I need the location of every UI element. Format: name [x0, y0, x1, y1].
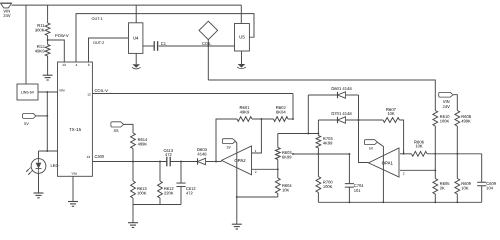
wire feedback node to OPA1 input	[359, 95, 369, 163]
wire C1 to U5 / coil tap	[159, 45, 235, 47]
node POW-V	[48, 40, 65, 62]
svg-text:C613: C613	[164, 148, 174, 153]
resistor R612 220K	[159, 162, 161, 182]
IC TX-15 main controller	[58, 62, 93, 176]
svg-text:1: 1	[255, 149, 257, 153]
wire U4 out to C1	[143, 45, 154, 47]
capacitor C609 104	[481, 154, 483, 183]
wire OPA2 pin 2 to R603/R604 node	[252, 168, 278, 170]
svg-text:R12: R12	[37, 45, 45, 50]
svg-text:OUT-1: OUT-1	[92, 17, 103, 21]
wire OPA1 pin 2 line	[400, 169, 435, 171]
svg-text:2: 2	[403, 172, 405, 176]
capacitor C612 472	[180, 162, 182, 184]
svg-text:2: 2	[255, 171, 257, 175]
wire OPA2 feedback up to R601	[216, 119, 237, 162]
wire LED cathode to ground	[38, 173, 40, 192]
wire U5 to ground	[241, 51, 243, 64]
resistor R614 499K	[131, 133, 136, 149]
ground (U4)	[132, 64, 140, 68]
capacitor C1	[153, 41, 155, 51]
ground (LED)	[34, 192, 44, 194]
wire R605 to bottom rail	[434, 194, 436, 202]
svg-text:R703: R703	[323, 136, 333, 141]
wire net C300 (IC pin 13 to C613)	[95, 155, 105, 160]
svg-text:R603: R603	[282, 150, 292, 155]
svg-text:472: 472	[186, 191, 193, 196]
wire R607 to OPA1 output node	[400, 120, 404, 154]
wire rail to U4	[135, 5, 137, 23]
wire VIN flag to R608	[453, 95, 457, 111]
wire LED line to IC	[39, 150, 58, 152]
svg-text:472: 472	[165, 153, 172, 158]
svg-text:5V: 5V	[227, 146, 231, 150]
wire rail to LIN5-5V regulator input	[25, 5, 27, 84]
wire 5V flag through OPA1 to rail	[377, 142, 383, 202]
wire SS flag to R614	[124, 124, 133, 133]
svg-text:C612: C612	[186, 186, 196, 191]
wire bottom rail (R613 group)	[133, 204, 181, 206]
resistor R601 49K9	[237, 117, 252, 122]
svg-text:OUT-2: OUT-2	[93, 41, 104, 45]
svg-text:49K9: 49K9	[35, 49, 45, 54]
resistor R11 300K	[47, 5, 49, 23]
svg-text:R613: R613	[137, 186, 147, 191]
wire C704 to bottom rail	[348, 187, 350, 202]
svg-text:24V: 24V	[443, 104, 451, 109]
LED D1	[31, 159, 46, 174]
wire U4 to ground	[135, 53, 137, 64]
svg-text:C609: C609	[486, 181, 496, 186]
svg-text:R602: R602	[276, 105, 286, 110]
svg-text:499K: 499K	[461, 119, 470, 124]
diode D701 4148	[318, 119, 337, 121]
wire coil sense line to R610	[208, 80, 435, 111]
svg-text:LIN5-5V: LIN5-5V	[21, 90, 35, 94]
svg-text:100K: 100K	[323, 184, 332, 189]
resistor R12 49K9	[47, 36, 49, 45]
wire to LED anode	[38, 151, 40, 158]
wire 5V flag through OPA2 to ground	[235, 141, 236, 224]
svg-text:OPA2: OPA2	[234, 158, 245, 163]
svg-text:100K: 100K	[137, 191, 146, 196]
ground (Vss)	[68, 201, 78, 203]
svg-text:5V: 5V	[369, 147, 373, 151]
ground (OPA2)	[232, 223, 242, 225]
wire R603 to R604	[277, 160, 279, 179]
svg-text:D603: D603	[197, 147, 207, 152]
svg-text:2K: 2K	[440, 186, 445, 191]
svg-text:C300: C300	[95, 155, 105, 160]
wire C613 to D603	[170, 161, 197, 163]
wire IC Vss to ground	[72, 176, 74, 201]
resistor R613 100K	[132, 162, 134, 182]
wire R613 to bottom rail	[132, 198, 134, 205]
svg-text:5V: 5V	[24, 122, 29, 126]
svg-text:4148: 4148	[197, 152, 206, 157]
svg-text:R601: R601	[240, 105, 250, 110]
svg-text:R605: R605	[440, 181, 450, 186]
diode D603 4148	[197, 158, 199, 164]
svg-text:300K: 300K	[35, 28, 45, 33]
resistor R605 2K	[433, 179, 438, 195]
resistor R608 499K	[455, 111, 460, 127]
svg-text:POW-V: POW-V	[55, 34, 69, 39]
regulator LIN5-5V	[17, 84, 38, 100]
wire R602 to COIL-V drop	[288, 118, 293, 120]
resistor R602 6K04	[274, 117, 289, 122]
svg-text:D701 4148: D701 4148	[331, 111, 351, 116]
power flag VIN 24V (top-left)	[1, 3, 12, 8]
wire C612 to bottom rail	[180, 186, 182, 204]
wire ground rail (OPA2)	[237, 196, 278, 198]
wire R604 to ground rail	[277, 194, 279, 198]
resistor R603 6K99	[277, 134, 279, 148]
wire coil bottom vertical	[207, 40, 209, 80]
svg-text:R612: R612	[164, 186, 174, 191]
wire R603 top to R703 node	[278, 133, 319, 135]
wire D601 loop left drop	[307, 95, 309, 134]
svg-text:220K: 220K	[164, 191, 173, 196]
net flag VIN 24V (right)	[439, 92, 453, 97]
svg-text:R609: R609	[461, 181, 471, 186]
wire R614 to C300 line	[132, 149, 134, 162]
svg-text:6: 6	[88, 63, 90, 67]
ground (R12)	[43, 74, 53, 76]
IC U5 driver	[235, 24, 250, 52]
wire R703 to R700	[317, 148, 319, 177]
wire OPA2 output to feedback node	[252, 119, 262, 153]
net flag 5V	[23, 113, 36, 118]
wire VIN 24V top rail	[12, 4, 242, 6]
svg-text:TX-15: TX-15	[69, 128, 81, 133]
IC U4 driver	[129, 23, 143, 54]
wire R608 to R609	[456, 126, 458, 179]
wire R700 to bottom rail	[317, 193, 319, 203]
wire rail to U5	[240, 5, 242, 23]
svg-text:C1: C1	[161, 41, 166, 46]
wire 5V flag tap	[36, 115, 47, 117]
wire D601 to OPA1 node	[346, 94, 359, 96]
wire net OUT-1	[76, 14, 254, 62]
wire net OUT-2	[89, 38, 129, 62]
wire R601 to R602	[252, 118, 274, 120]
svg-text:R610: R610	[440, 114, 450, 119]
svg-text:6K04: 6K04	[276, 110, 286, 115]
svg-text:101: 101	[354, 188, 361, 193]
svg-text:10K: 10K	[415, 144, 423, 149]
capacitor C613 472	[166, 157, 168, 167]
wire COIL-V down to R602	[292, 94, 294, 120]
svg-text:R604: R604	[282, 183, 292, 188]
resistor R703 4K99	[317, 120, 319, 136]
wire C609 to bottom rail	[481, 186, 483, 203]
net flag SS	[111, 122, 124, 127]
svg-text:13: 13	[62, 63, 66, 67]
wire 5V net vertical	[46, 92, 48, 151]
svg-text:COIL-V: COIL-V	[95, 88, 109, 93]
LED arrows	[28, 171, 32, 175]
svg-text:499K: 499K	[138, 142, 147, 147]
svg-text:VIN: VIN	[59, 89, 65, 93]
op-amp OPA1	[369, 148, 400, 177]
svg-text:U5: U5	[239, 35, 245, 40]
diode D601 4148	[308, 94, 337, 96]
ground (U5)	[238, 64, 246, 68]
svg-text:VIN: VIN	[3, 9, 10, 14]
svg-text:D601 4148: D601 4148	[331, 86, 351, 91]
svg-text:4: 4	[76, 63, 78, 67]
svg-text:R614: R614	[138, 137, 148, 142]
op-amp OPA2	[222, 146, 252, 175]
svg-text:Vss: Vss	[72, 172, 78, 176]
svg-text:R11: R11	[37, 24, 44, 29]
svg-text:R608: R608	[461, 114, 471, 119]
resistor R609 10K	[455, 179, 460, 195]
svg-text:10K: 10K	[387, 112, 395, 117]
svg-text:U4: U4	[133, 36, 139, 41]
capacitor C704 101	[348, 154, 350, 184]
net flag 5V (OPA1 supply)	[364, 140, 377, 145]
wire LIN5-5V output to IC VIN	[38, 91, 58, 93]
resistor R604 10K	[275, 178, 280, 194]
resistor R606 10K	[412, 151, 428, 156]
resistor R610 100K	[433, 111, 438, 127]
wire R610 to R605	[434, 126, 436, 179]
wire OPA2 stage link line	[293, 153, 349, 155]
svg-text:10K: 10K	[282, 188, 289, 193]
wire output node line to C609	[427, 153, 482, 155]
wire net COIL-V	[93, 93, 293, 95]
net flag 5V (OPA2 supply)	[222, 139, 235, 144]
wire bottom ground rail (right)	[318, 201, 481, 203]
svg-text:4K99: 4K99	[323, 141, 332, 146]
wire D701 to R607	[346, 119, 383, 121]
svg-text:R607: R607	[386, 107, 396, 112]
svg-text:SS: SS	[113, 129, 118, 133]
resistor R700 100K	[316, 177, 321, 193]
svg-text:104: 104	[486, 186, 493, 191]
svg-text:VIN: VIN	[443, 100, 450, 105]
svg-text:COIL: COIL	[202, 41, 212, 46]
svg-text:100K: 100K	[440, 119, 449, 124]
svg-text:10K: 10K	[461, 186, 468, 191]
ground (R613 group)	[128, 222, 138, 224]
svg-text:49K9: 49K9	[240, 110, 250, 115]
svg-text:12: 12	[87, 93, 91, 97]
wire D603 to OPA2 input	[206, 161, 222, 163]
svg-text:6K99: 6K99	[282, 155, 291, 160]
svg-text:R700: R700	[323, 180, 333, 185]
svg-text:24V: 24V	[3, 13, 10, 18]
svg-text:13: 13	[87, 156, 91, 160]
coil L1 (diamond symbol)	[199, 21, 218, 39]
resistor R607 10K	[383, 118, 400, 123]
svg-text:C704: C704	[354, 184, 364, 189]
wire R609 to bottom rail	[456, 194, 458, 202]
wire rail to ground	[132, 205, 134, 223]
wire OPA1 output	[400, 153, 412, 155]
wire R612 to bottom rail	[159, 198, 161, 205]
